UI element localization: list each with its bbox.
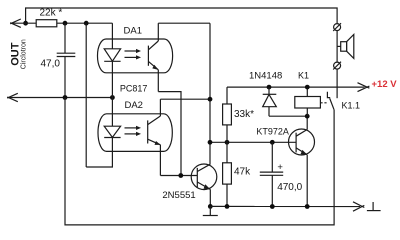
node base of 2N5551 bbox=[178, 173, 183, 178]
resistor R3 47k bbox=[223, 142, 232, 206]
svg-text:1N4148: 1N4148 bbox=[249, 70, 282, 81]
capacitor C2 470,0 bbox=[260, 142, 283, 206]
wire pin to contact bbox=[336, 69, 338, 98]
node at 22k/cap junction bbox=[63, 21, 68, 26]
capacitor C1 47,0 bbox=[57, 53, 76, 56]
wire top rail bbox=[26, 8, 338, 24]
wire diode to relay bottom bbox=[269, 115, 307, 117]
node 47k bottom bbox=[225, 204, 230, 209]
svg-text:DA2: DA2 bbox=[124, 100, 142, 111]
wire between pins bbox=[336, 31, 338, 62]
wire DA2 collector row bbox=[160, 98, 210, 100]
OUT arrow (top input) bbox=[10, 19, 36, 27]
svg-text:47,0: 47,0 bbox=[41, 59, 61, 70]
ground rail bbox=[210, 205, 360, 207]
node diode top bbox=[267, 85, 272, 90]
ground symbol right bbox=[367, 202, 381, 211]
svg-text:DA1: DA1 bbox=[124, 25, 142, 36]
node relay bottom / collector bbox=[305, 114, 310, 119]
svg-text:2N5551: 2N5551 bbox=[162, 190, 195, 201]
row node y142 bbox=[210, 141, 296, 143]
wire contact to bottom loop bbox=[65, 98, 334, 225]
+12V rail bbox=[227, 86, 365, 88]
wire DA1 collector row bbox=[158, 22, 210, 24]
relay coil K1 bbox=[295, 87, 321, 116]
wire x86 vertical branch bbox=[85, 23, 87, 167]
node LED midpoint bbox=[110, 95, 115, 100]
light arrows DA1 bbox=[125, 49, 142, 60]
optocoupler DA2 body bbox=[98, 114, 172, 152]
ground symbol under 2N5551 bbox=[203, 206, 218, 215]
wire cap to lower input line bbox=[64, 57, 66, 98]
svg-text:Circlotron: Circlotron bbox=[20, 39, 27, 69]
wire right rail bbox=[209, 23, 211, 164]
transistor Q1 2N5551 bbox=[191, 164, 217, 206]
node rail/DA2 collector bbox=[208, 97, 213, 102]
svg-text:+12 V: +12 V bbox=[372, 79, 398, 90]
LED DA1 bbox=[104, 23, 120, 97]
node 2N5551 emitter / ground rail bbox=[208, 204, 213, 209]
svg-text:PC817: PC817 bbox=[120, 84, 148, 94]
node KT972A emitter/ground bbox=[305, 204, 310, 209]
speaker BA1 bbox=[337, 35, 354, 59]
resistor R1 22k* bbox=[36, 20, 57, 27]
arrowhead +12V bbox=[358, 83, 370, 89]
svg-text:+: + bbox=[277, 162, 283, 173]
node A top-left junction bbox=[23, 21, 28, 26]
transistor Q2 KT972A bbox=[289, 116, 315, 206]
diode VD1 1N4148 bbox=[263, 87, 277, 116]
svg-text:KT972A: KT972A bbox=[256, 127, 289, 137]
svg-text:22k *: 22k * bbox=[40, 8, 63, 19]
phototransistor DA2 bbox=[148, 99, 161, 175]
OUT arrow (lower input) bbox=[7, 93, 112, 101]
resistor R2 33k* bbox=[223, 87, 232, 142]
svg-text:K1.1: K1.1 bbox=[342, 100, 361, 110]
optocoupler DA1 body bbox=[98, 39, 173, 73]
node at x86 branch bbox=[84, 21, 89, 26]
connector pin lower bbox=[333, 62, 341, 70]
svg-text:K1: K1 bbox=[298, 70, 309, 80]
wire DA2 emitter to base node bbox=[160, 175, 197, 177]
svg-text:470,0: 470,0 bbox=[277, 182, 302, 193]
ground arrow right bbox=[353, 202, 364, 208]
wire DA1 emitter jog bbox=[158, 92, 181, 176]
svg-text:47k: 47k bbox=[234, 166, 251, 177]
light arrows DA2 bbox=[125, 126, 142, 136]
wire resistor to LED column bbox=[57, 22, 113, 24]
svg-text:33k*: 33k* bbox=[234, 109, 254, 120]
relay contact K1.1 bbox=[320, 92, 334, 110]
wire cap branch upper bbox=[64, 23, 66, 53]
connector pin upper bbox=[333, 23, 341, 31]
wire jog to LED cathode column bbox=[86, 138, 112, 168]
node cap-bottom / loop bbox=[63, 95, 68, 100]
node C2 bottom bbox=[270, 204, 275, 209]
LED DA2 bbox=[104, 98, 120, 138]
phototransistor DA1 bbox=[148, 23, 158, 91]
node relay top bbox=[305, 85, 310, 90]
